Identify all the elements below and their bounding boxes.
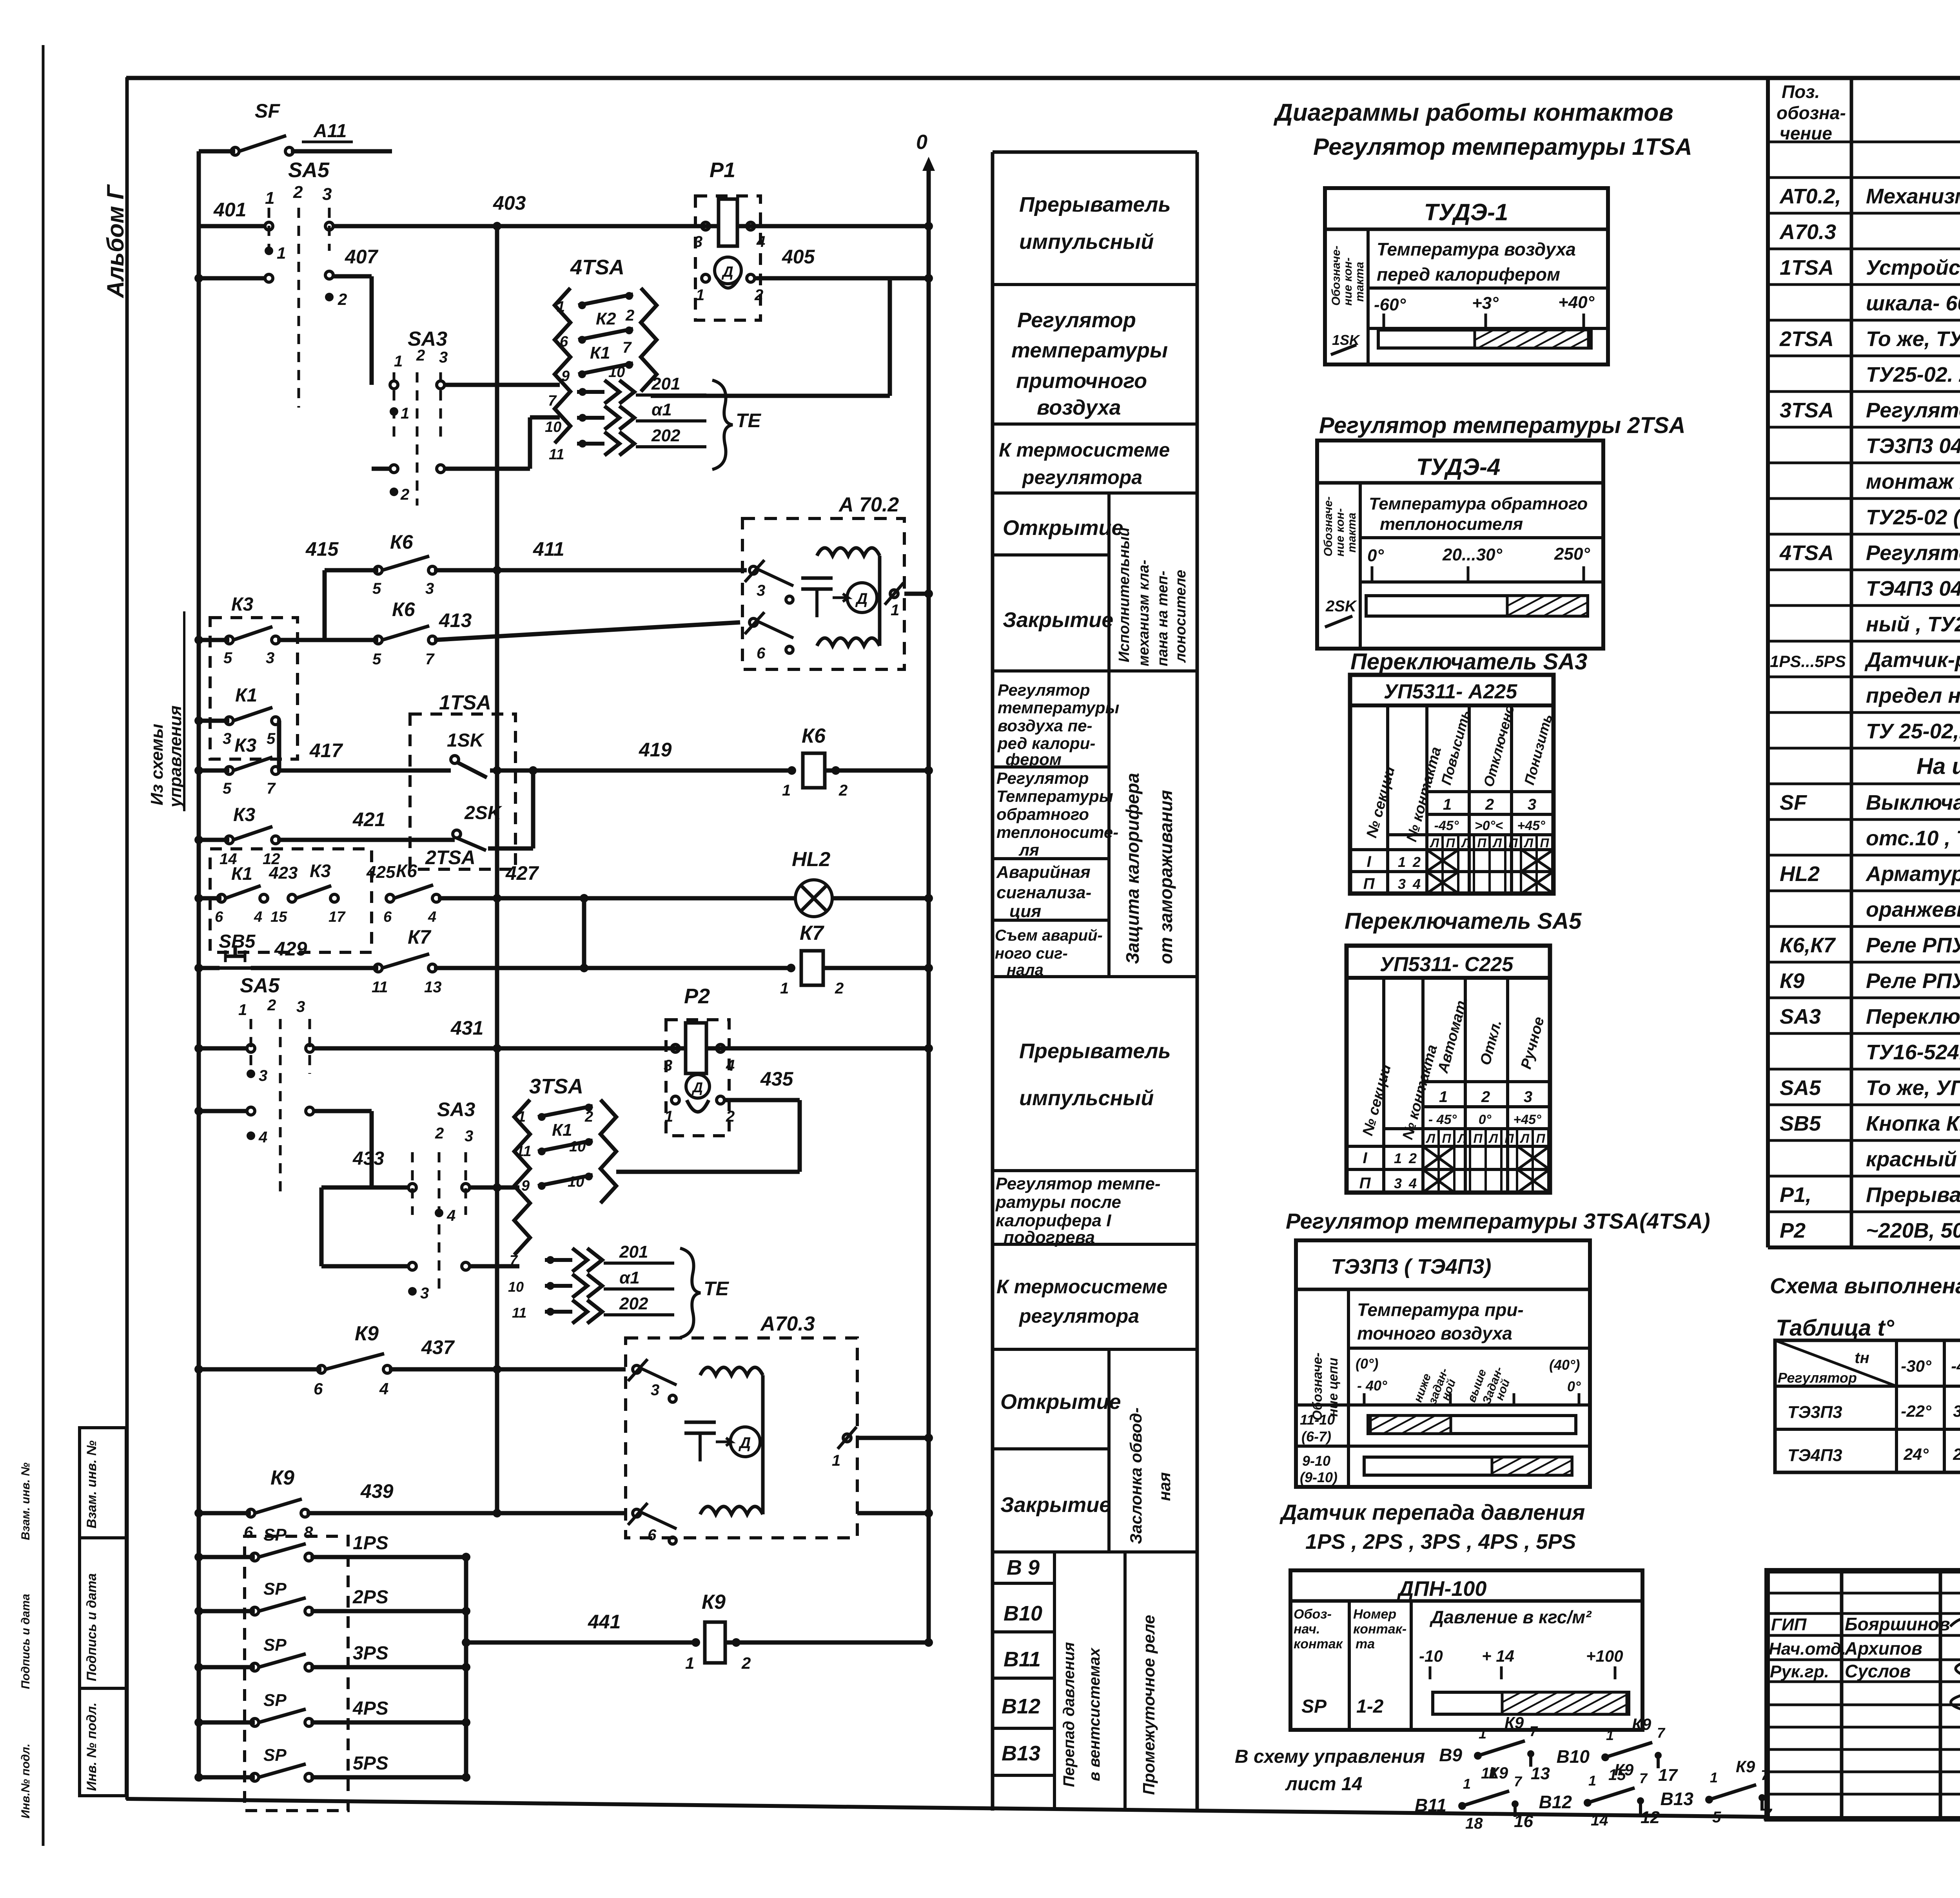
parts table rows text: [1770, 147, 1960, 1242]
svg-text:2: 2: [1485, 796, 1494, 813]
svg-text:13: 13: [424, 979, 442, 996]
svg-text:Прерыватель: Прерыватель: [1019, 193, 1171, 216]
svg-text:Защита калорифера: Защита калорифера: [1122, 773, 1143, 964]
svg-text:24°: 24°: [1903, 1445, 1929, 1463]
svg-text:7: 7: [1657, 1725, 1666, 1741]
svg-text:П: П: [1540, 836, 1549, 850]
svg-text:Р1: Р1: [710, 158, 735, 182]
svg-text:SА3: SА3: [437, 1099, 475, 1120]
svg-text:1РS: 1РS: [353, 1533, 388, 1554]
svg-text:433: 433: [352, 1148, 384, 1169]
svg-text:Л: Л: [1461, 836, 1471, 850]
second row SA5-2: [247, 1107, 255, 1115]
svg-text:А11: А11: [313, 121, 347, 141]
svg-text:3: 3: [1398, 876, 1406, 892]
svg-text:(0°): (0°): [1356, 1356, 1378, 1372]
svg-text:1: 1: [1394, 1150, 1402, 1166]
svg-text:10: 10: [569, 1138, 586, 1155]
svg-text:1: 1: [1398, 854, 1406, 870]
svg-text:Арматура светосигнальная АСЛ11: Арматура светосигнальная АСЛ11У2,: [1865, 862, 1960, 886]
svg-text:Регулятор: Регулятор: [996, 769, 1089, 787]
svg-text:Датчик перепада давления: Датчик перепада давления: [1279, 1500, 1585, 1525]
contact SP 5РS: [199, 1775, 255, 1780]
svg-text:1: 1: [1439, 1088, 1448, 1106]
svg-text:К9: К9: [1489, 1764, 1508, 1782]
svg-text:3: 3: [694, 233, 702, 250]
svg-text:импульсный: импульсный: [1019, 230, 1154, 254]
svg-text:регулятора: регулятора: [1022, 466, 1142, 488]
svg-text:3: 3: [223, 730, 231, 747]
svg-text:1: 1: [1710, 1769, 1718, 1786]
svg-text:контак: контак: [1294, 1637, 1343, 1651]
svg-text:1ТSА: 1ТSА: [439, 691, 491, 714]
svg-text:К1: К1: [552, 1120, 572, 1140]
svg-text:УП5311- А225: УП5311- А225: [1384, 680, 1518, 703]
svg-text:2: 2: [835, 980, 844, 997]
svg-text:1: 1: [1588, 1773, 1596, 1789]
svg-text:20...30°: 20...30°: [1442, 545, 1503, 564]
svg-text:Выключатель А63-МУ3, Ун.р.= 2: Выключатель А63-МУ3, Ун.р.= 2А,: [1866, 791, 1960, 814]
svg-text:А70.3: А70.3: [760, 1312, 815, 1335]
svg-text:(6-7): (6-7): [1301, 1428, 1331, 1445]
svg-text:32°: 32°: [1953, 1402, 1960, 1420]
svg-text:Р1,: Р1,: [1780, 1183, 1811, 1207]
diagram DPN-100 box: [1290, 1570, 1642, 1730]
svg-text:монтаж настенный,: монтаж настенный,: [1866, 470, 1960, 493]
svg-text:К3: К3: [234, 735, 257, 756]
svg-text:1: 1: [1606, 1727, 1614, 1743]
svg-text:7: 7: [548, 393, 557, 409]
contacts K1 K3 K6 wire 427: [210, 849, 372, 952]
svg-text:- 45°: - 45°: [1428, 1112, 1457, 1127]
svg-text:421: 421: [352, 809, 385, 830]
svg-text:А 70.2: А 70.2: [838, 493, 899, 516]
svg-text:-40°: -40°: [1951, 1357, 1960, 1375]
svg-text:К7: К7: [800, 922, 824, 944]
svg-text:механизм кла-: механизм кла-: [1136, 560, 1152, 666]
svg-text:Архипов: Архипов: [1844, 1638, 1922, 1659]
svg-text:13: 13: [1531, 1764, 1550, 1783]
svg-text:2: 2: [726, 1108, 735, 1125]
svg-text:Обозначе-: Обозначе-: [1330, 246, 1343, 306]
svg-text:ТЕ: ТЕ: [736, 410, 762, 431]
svg-text:Давление в кгс/м²: Давление в кгс/м²: [1429, 1607, 1592, 1627]
svg-text:SР: SР: [263, 1579, 287, 1599]
svg-text:Л: Л: [1492, 836, 1502, 850]
svg-text:201: 201: [651, 374, 680, 393]
svg-text:ТУ16-524. 074-75: ТУ16-524. 074-75: [1866, 1041, 1960, 1064]
svg-text:К6: К6: [392, 598, 416, 620]
svg-text:3ТSА: 3ТSА: [529, 1075, 583, 1098]
svg-text:П: П: [1504, 1131, 1514, 1146]
svg-text:Обоз-: Обоз-: [1294, 1607, 1332, 1622]
svg-text:ГИП: ГИП: [1771, 1615, 1807, 1634]
svg-text:В11: В11: [1415, 1795, 1446, 1815]
svg-text:Диаграммы работы контактов: Диаграммы работы контактов: [1273, 99, 1673, 126]
svg-text:11: 11: [512, 1305, 526, 1321]
svg-text:7: 7: [425, 651, 435, 668]
svg-text:411: 411: [533, 538, 564, 560]
svg-text:Регулятор: Регулятор: [998, 681, 1090, 699]
svg-text:5: 5: [223, 649, 232, 667]
svg-text:П: П: [1477, 836, 1486, 850]
svg-text:Механизм исполнительный: Механизм исполнительный: [1866, 185, 1960, 208]
svg-text:1: 1: [832, 1452, 840, 1469]
svg-text:5РS: 5РS: [353, 1753, 388, 1774]
switch SA3 table: [1350, 675, 1555, 894]
svg-text:7: 7: [622, 339, 632, 356]
svg-text:В13: В13: [1661, 1789, 1694, 1809]
switch SA5 table: [1347, 946, 1550, 1193]
svg-text:5: 5: [372, 580, 381, 597]
svg-text:То же, ТУДЭ-4, шкала 0°... 250: То же, ТУДЭ-4, шкала 0°... 250°С: [1866, 327, 1960, 351]
svg-text:Бояршинов: Бояршинов: [1845, 1614, 1950, 1634]
svg-text:Закрытие: Закрытие: [1003, 608, 1113, 632]
svg-text:Кнопка КЕ011У3, исп. 5, толка: Кнопка КЕ011У3, исп. 5, толкатель: [1866, 1112, 1960, 1135]
svg-text:красный , ТУ16- 526.407-79: красный , ТУ16- 526.407-79: [1866, 1148, 1960, 1171]
svg-text:7: 7: [1761, 1767, 1769, 1783]
svg-text:1: 1: [401, 405, 409, 422]
svg-text:4: 4: [1412, 876, 1421, 892]
svg-text:413: 413: [439, 609, 472, 631]
svg-text:ние кон-: ние кон-: [1341, 257, 1354, 306]
label column texts: [995, 193, 1189, 1795]
svg-text:фером: фером: [1005, 750, 1062, 769]
svg-text:Съем аварий-: Съем аварий-: [995, 927, 1103, 944]
svg-text:предел настройки- 10... +100кг: предел настройки- 10... +100кгс/м²: [1866, 684, 1960, 707]
svg-text:-45°: -45°: [1434, 818, 1459, 833]
contact SP 3РS: [199, 1665, 255, 1670]
svg-text:Датчик-реле перепада напора Д: Датчик-реле перепада напора ДПН-100: [1864, 648, 1960, 672]
svg-text:1: 1: [696, 286, 704, 304]
svg-text:SА5: SА5: [240, 974, 280, 997]
parts table header: [1777, 82, 1960, 143]
svg-text:Из схемы: Из схемы: [147, 724, 167, 805]
svg-text:4ТSА: 4ТSА: [1779, 541, 1834, 565]
svg-text:Переключатель SА5: Переключатель SА5: [1345, 908, 1582, 934]
svg-text:обратного: обратного: [996, 805, 1089, 823]
svg-text:Прерыватель импульсный СИП-01: Прерыватель импульсный СИП-01УМ: [1866, 1183, 1960, 1207]
svg-text:1: 1: [1479, 1726, 1486, 1742]
svg-text:7: 7: [1530, 1723, 1538, 1739]
svg-text:Регулятор: Регулятор: [1778, 1370, 1857, 1386]
svg-text:Таблица t°: Таблица t°: [1776, 1315, 1895, 1341]
svg-text:Температура воздуха: Температура воздуха: [1377, 239, 1576, 259]
svg-text:К6: К6: [802, 725, 826, 747]
svg-text:2: 2: [1412, 854, 1421, 870]
svg-text:427: 427: [505, 862, 539, 884]
svg-text:ТУ25-02 (30 2-574180) -82: ТУ25-02 (30 2-574180) -82: [1866, 506, 1960, 529]
breaker SF: [199, 149, 235, 154]
svg-text:1: 1: [394, 353, 403, 370]
svg-text:Открытие: Открытие: [1000, 1390, 1121, 1414]
svg-text:6: 6: [383, 909, 392, 925]
svg-text:лист 14: лист 14: [1285, 1774, 1362, 1795]
svg-text:Переключатель SА3: Переключатель SА3: [1350, 649, 1587, 674]
svg-text:сигнализа-: сигнализа-: [996, 883, 1091, 902]
title block signatures: [1769, 1614, 1960, 1711]
svg-text:SР: SР: [263, 1635, 287, 1655]
svg-text:температуры: температуры: [998, 698, 1120, 717]
svg-text:6: 6: [244, 1523, 253, 1541]
svg-text:такта: такта: [1353, 262, 1366, 302]
svg-text:ный , ТУ25- 02 (30 2.574180) -: ный , ТУ25- 02 (30 2.574180) -82: [1866, 613, 1960, 636]
svg-text:теплоносителя: теплоносителя: [1380, 515, 1523, 534]
svg-text:К9: К9: [1780, 969, 1804, 993]
wire 431: [199, 1046, 247, 1051]
svg-text:1: 1: [782, 782, 791, 799]
svg-text:24°: 24°: [1953, 1445, 1960, 1463]
svg-text:К1: К1: [235, 685, 257, 706]
svg-text:К термосистеме: К термосистеме: [999, 439, 1170, 461]
svg-text:7: 7: [267, 780, 276, 797]
svg-text:ТУ25-02. 281074-78: ТУ25-02. 281074-78: [1866, 363, 1960, 386]
svg-text:К2: К2: [596, 309, 616, 328]
svg-text:обозна-: обозна-: [1777, 103, 1846, 123]
svg-text:Заслонка обвод-: Заслонка обвод-: [1127, 1407, 1145, 1544]
svg-text:3: 3: [425, 580, 434, 597]
svg-text:К3: К3: [233, 805, 256, 825]
svg-text:SF: SF: [1780, 791, 1808, 814]
svg-text:А70.3: А70.3: [1779, 220, 1836, 244]
svg-text:+3°: +3°: [1472, 294, 1499, 313]
svg-text:1: 1: [891, 602, 899, 619]
svg-text:10: 10: [568, 1174, 584, 1190]
svg-text:импульсный: импульсный: [1019, 1086, 1154, 1110]
svg-text:>0°<: >0°<: [1475, 818, 1503, 833]
svg-text:3: 3: [420, 1285, 429, 1302]
svg-text:8: 8: [304, 1523, 313, 1541]
svg-text:К9: К9: [1632, 1715, 1651, 1733]
svg-text:3: 3: [664, 1057, 672, 1074]
svg-text:-10: -10: [1419, 1647, 1443, 1665]
svg-text:точного воздуха: точного воздуха: [1357, 1323, 1512, 1343]
svg-text:регулятора: регулятора: [1018, 1305, 1139, 1327]
svg-text:в вентсистемах: в вентсистемах: [1086, 1647, 1103, 1781]
svg-text:чение: чение: [1780, 123, 1832, 143]
svg-text:1: 1: [277, 244, 286, 262]
svg-text:1: 1: [1463, 1776, 1471, 1792]
svg-text:3: 3: [1524, 1088, 1532, 1106]
svg-text:3: 3: [1394, 1175, 1402, 1191]
svg-text:АТ0.2,: АТ0.2,: [1779, 185, 1841, 208]
svg-text:такта: такта: [1345, 513, 1358, 553]
svg-text:SВ5: SВ5: [1780, 1112, 1821, 1135]
svg-text:4: 4: [756, 233, 765, 250]
svg-text:Регулятор температуры электрич: Регулятор температуры электрический,: [1866, 399, 1960, 422]
svg-text:6: 6: [757, 645, 766, 662]
svg-text:3ТSА: 3ТSА: [1780, 399, 1834, 422]
svg-text:1: 1: [685, 1654, 694, 1672]
svg-text:То же, УП5311-С225У3,ТУ16-524.: То же, УП5311-С225У3,ТУ16-524. 074-75: [1866, 1076, 1960, 1100]
svg-text:ТЭ4П3: ТЭ4П3: [1788, 1446, 1842, 1465]
svg-text:4: 4: [446, 1207, 456, 1224]
svg-text:В10: В10: [1557, 1746, 1590, 1767]
svg-text:17: 17: [328, 909, 346, 925]
svg-text:1: 1: [517, 1109, 526, 1125]
svg-text:П: П: [1442, 1131, 1451, 1146]
svg-text:SВ5: SВ5: [219, 931, 256, 952]
svg-text:α1: α1: [619, 1268, 640, 1287]
svg-text:П: П: [1446, 836, 1455, 850]
svg-text:11: 11: [516, 1143, 531, 1160]
svg-text:В10: В10: [1004, 1602, 1042, 1625]
svg-text:Регулятор: Регулятор: [1017, 308, 1136, 332]
svg-text:3: 3: [651, 1381, 659, 1399]
svg-text:ТЭ4П3 04.2 , от 0 до 40°С , м: ТЭ4П3 04.2 , от 0 до 40°С , монтаж насте…: [1866, 577, 1960, 600]
svg-text:2: 2: [741, 1654, 751, 1672]
svg-text:ратуры после: ратуры после: [995, 1193, 1121, 1212]
svg-text:Р2: Р2: [684, 984, 710, 1008]
svg-text:12: 12: [1641, 1808, 1660, 1827]
svg-text:2: 2: [625, 307, 634, 324]
svg-text:3РS: 3РS: [353, 1643, 388, 1664]
vertical 427-429 link: [582, 898, 586, 968]
svg-text:В13: В13: [1002, 1742, 1040, 1765]
svg-text:Аварийная: Аварийная: [996, 863, 1091, 882]
svg-text:нала: нала: [1007, 961, 1044, 979]
svg-text:2ТSА: 2ТSА: [425, 847, 475, 868]
svg-text:Исполнительный: Исполнительный: [1116, 528, 1132, 662]
svg-text:калорифера I: калорифера I: [996, 1211, 1111, 1230]
svg-text:4: 4: [428, 909, 436, 925]
svg-text:I: I: [1367, 853, 1371, 870]
svg-text:- 40°: - 40°: [1357, 1378, 1387, 1394]
svg-text:10: 10: [545, 419, 561, 435]
svg-text:4: 4: [254, 909, 262, 925]
svg-text:+ 14: + 14: [1482, 1647, 1514, 1665]
svg-text:3: 3: [465, 1128, 473, 1145]
bottom interface contacts B9..B13: [1415, 1713, 1773, 1832]
svg-text:Альбом Г: Альбом Г: [102, 184, 129, 299]
svg-text:Схема выполнена при температу: Схема выполнена при температуре наружног…: [1770, 1273, 1960, 1298]
sheet frame: [126, 76, 1960, 80]
contact K3 wire 413: [210, 618, 298, 759]
svg-text:ТЕ: ТЕ: [704, 1278, 730, 1300]
svg-text:Д: Д: [855, 590, 868, 607]
svg-text:+100: +100: [1586, 1647, 1623, 1665]
svg-text:Переключатель УП5311- А225У3: Переключатель УП5311- А225У3: [1866, 1005, 1960, 1028]
svg-text:Открытие: Открытие: [1003, 516, 1123, 540]
svg-text:В 9: В 9: [1007, 1556, 1040, 1579]
svg-text:2SK: 2SK: [464, 803, 503, 823]
svg-text:4: 4: [1408, 1175, 1417, 1191]
svg-text:2: 2: [584, 1109, 593, 1125]
svg-text:6: 6: [215, 909, 223, 925]
svg-text:К3: К3: [231, 594, 254, 615]
svg-text:α1: α1: [652, 400, 672, 419]
svg-text:SА3: SА3: [1780, 1005, 1821, 1028]
svg-text:10: 10: [608, 364, 625, 381]
svg-text:К9: К9: [355, 1322, 379, 1345]
svg-text:Регулятор температуры электрич: Регулятор температуры электрический: [1866, 541, 1960, 565]
svg-text:(9-10): (9-10): [1300, 1469, 1338, 1485]
svg-text:250°: 250°: [1554, 544, 1590, 564]
svg-text:та: та: [1356, 1637, 1375, 1651]
svg-text:2РS: 2РS: [352, 1587, 388, 1608]
svg-text:403: 403: [493, 192, 526, 214]
svg-text:Д: Д: [691, 1079, 703, 1095]
svg-text:7: 7: [1514, 1773, 1523, 1789]
svg-text:1ТSА: 1ТSА: [1780, 256, 1834, 279]
svg-text:5: 5: [372, 651, 381, 668]
svg-text:2: 2: [416, 347, 425, 364]
svg-text:Л: Л: [1430, 836, 1439, 850]
svg-text:контак-: контак-: [1353, 1622, 1406, 1637]
svg-text:+45°: +45°: [1513, 1112, 1541, 1127]
svg-text:Р2: Р2: [1780, 1219, 1806, 1242]
svg-text:воздуха: воздуха: [1037, 396, 1121, 419]
contact SP 4РS: [199, 1720, 255, 1725]
svg-text:воздуха пе-: воздуха пе-: [998, 716, 1093, 735]
svg-text:4: 4: [726, 1057, 735, 1074]
svg-text:П: П: [1363, 875, 1375, 892]
svg-text:Взам. инв. №: Взам. инв. №: [19, 1463, 32, 1540]
svg-text:К9: К9: [702, 1591, 726, 1613]
svg-text:+40°: +40°: [1558, 293, 1595, 312]
svg-text:2ТSА: 2ТSА: [1779, 327, 1834, 351]
svg-text:7: 7: [1639, 1770, 1648, 1786]
svg-text:4: 4: [379, 1380, 388, 1398]
left supply bus: [197, 151, 201, 1777]
svg-text:К9: К9: [270, 1467, 294, 1489]
svg-text:Устройство терморегулирующее Т: Устройство терморегулирующее ТУДЭ-1: [1866, 256, 1960, 279]
svg-text:ТЭ3П3: ТЭ3П3: [1788, 1403, 1842, 1422]
svg-text:1: 1: [265, 189, 274, 208]
svg-text:429: 429: [274, 938, 307, 960]
svg-text:Поз.: Поз.: [1782, 82, 1820, 102]
svg-text:К1: К1: [590, 343, 610, 363]
svg-text:П: П: [1359, 1175, 1371, 1192]
svg-text:1-2: 1-2: [1356, 1696, 1384, 1717]
temperature table: [1775, 1340, 1960, 1472]
svg-text:9-10: 9-10: [1302, 1453, 1330, 1469]
svg-text:2: 2: [400, 486, 409, 503]
svg-text:ред калори-: ред калори-: [997, 734, 1095, 752]
parts table grid: [1768, 77, 1960, 1247]
svg-text:ля: ля: [1018, 841, 1039, 859]
svg-text:К3: К3: [310, 861, 331, 881]
svg-text:-60°: -60°: [1374, 295, 1406, 314]
svg-text:-22°: -22°: [1901, 1402, 1932, 1420]
svg-text:В схему управления: В схему управления: [1235, 1746, 1425, 1767]
svg-text:Подпись и дата: Подпись и дата: [19, 1594, 32, 1689]
svg-text:П: П: [1508, 836, 1518, 850]
svg-text:Обозначе-: Обозначе-: [1310, 1352, 1325, 1421]
svg-text:В12: В12: [1002, 1695, 1040, 1718]
svg-text:ТУ 25-02,161384-78: ТУ 25-02,161384-78: [1866, 720, 1960, 743]
svg-text:лоносителе: лоносителе: [1172, 570, 1189, 663]
svg-text:ция: ция: [1009, 902, 1041, 921]
svg-text:SР: SР: [263, 1525, 287, 1545]
svg-text:tн: tн: [1855, 1349, 1869, 1367]
svg-text:441: 441: [588, 1611, 621, 1633]
svg-text:SР: SР: [263, 1746, 287, 1765]
pressure contacts SP 1PS-5PS: [245, 1536, 348, 1811]
svg-text:К9: К9: [1504, 1713, 1524, 1732]
svg-text:Л: Л: [1426, 1131, 1436, 1146]
svg-text:отс.10 , ТУ16-522.110-74: отс.10 , ТУ16-522.110-74: [1866, 827, 1960, 850]
svg-text:3: 3: [266, 649, 274, 667]
svg-text:425: 425: [366, 863, 396, 882]
svg-text:Рук.гр.: Рук.гр.: [1770, 1662, 1829, 1681]
svg-text:14: 14: [1591, 1812, 1608, 1829]
svg-text:ТЭ3П3 04. 2 , вариант А, от -: ТЭ3П3 04. 2 , вариант А, от - 40 до 0°С,: [1866, 434, 1960, 458]
thermo element TE top: [577, 374, 762, 470]
svg-text:2: 2: [838, 782, 848, 799]
svg-text:6: 6: [314, 1380, 323, 1398]
svg-text:от замораживания: от замораживания: [1156, 790, 1176, 964]
